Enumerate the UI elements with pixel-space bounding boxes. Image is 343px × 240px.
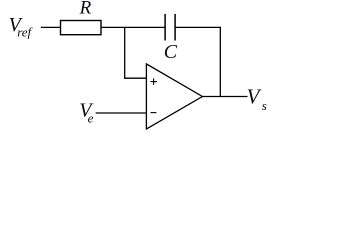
wire node A to op-amp plus input xyxy=(124,77,146,79)
wire R to capacitor xyxy=(101,26,165,28)
wire Ve to op-amp minus input xyxy=(96,112,147,114)
wire op-amp output to Vs xyxy=(202,96,247,98)
resistor R1 xyxy=(61,21,102,35)
node Vref label xyxy=(9,14,34,40)
svg-text:e: e xyxy=(88,111,94,126)
capacitor C1 left plate xyxy=(164,14,166,41)
op-amp U1 xyxy=(146,64,202,129)
svg-text:C: C xyxy=(164,41,178,63)
capacitor C1 right plate xyxy=(174,14,176,41)
op-amp plus pin marking xyxy=(150,78,157,85)
node A junction vertical wire xyxy=(124,27,126,78)
svg-text:s: s xyxy=(262,98,267,113)
node Ve label xyxy=(79,100,94,126)
svg-text:ref: ref xyxy=(17,25,33,40)
node Vs label xyxy=(247,85,267,113)
svg-text:V: V xyxy=(247,85,262,109)
wire capacitor to corner xyxy=(175,26,220,28)
wire feedback vertical down to output xyxy=(219,27,221,97)
svg-text:R: R xyxy=(79,0,92,19)
wire Vref to R xyxy=(41,26,61,28)
op-amp minus pin marking xyxy=(151,112,157,114)
